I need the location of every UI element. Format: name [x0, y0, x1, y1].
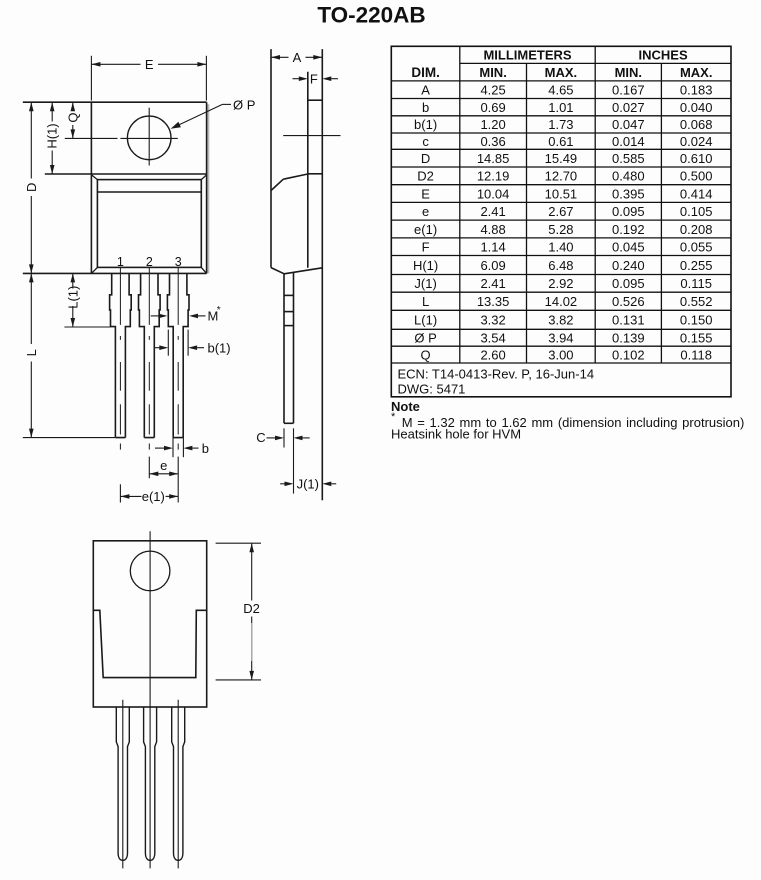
svg-text:14.85: 14.85: [477, 151, 510, 166]
svg-text:b(1): b(1): [208, 340, 231, 355]
front view tab top edge with D extension: [23, 101, 207, 103]
svg-text:D2: D2: [243, 601, 260, 616]
bottom view pin 1 outline: [116, 707, 129, 860]
svg-text:C: C: [256, 430, 265, 445]
svg-text:0.055: 0.055: [680, 240, 713, 255]
side view lead section tick 1: [284, 294, 294, 296]
mounting hole horizontal crosshair with Q extension: [65, 137, 118, 139]
svg-text:0.500: 0.500: [680, 169, 713, 184]
svg-text:2.41: 2.41: [480, 204, 505, 219]
svg-text:0.068: 0.068: [680, 117, 713, 132]
svg-text:*: *: [217, 305, 221, 316]
front view pin 2 lead outline: [139, 273, 161, 437]
front view body inner bevel rectangle: [97, 180, 201, 268]
front view pin 1 lead outline: [110, 273, 132, 437]
svg-text:0.047: 0.047: [612, 117, 645, 132]
pin 1 centerline: [119, 268, 121, 325]
svg-text:2: 2: [146, 255, 153, 269]
svg-text:c: c: [422, 134, 429, 149]
svg-text:3.32: 3.32: [480, 313, 505, 328]
svg-text:Heatsink hole for HVM: Heatsink hole for HVM: [391, 426, 521, 441]
svg-text:0.095: 0.095: [612, 204, 645, 219]
svg-text:2.67: 2.67: [548, 204, 573, 219]
side view body bottom slant: [284, 268, 322, 274]
dimension Q: [72, 102, 74, 110]
dimension E: [90, 56, 92, 101]
svg-text:INCHES: INCHES: [639, 47, 688, 62]
dimension L: [30, 273, 32, 344]
bottom view pin 3 outline: [172, 707, 185, 860]
svg-text:L(1): L(1): [65, 286, 80, 309]
bottom view pin 2 outline: [144, 707, 157, 860]
svg-text:15.49: 15.49: [545, 151, 578, 166]
svg-text:0.36: 0.36: [480, 134, 505, 149]
svg-text:0.395: 0.395: [612, 186, 645, 201]
front view tab right edge: [206, 102, 208, 273]
svg-text:TO-220AB: TO-220AB: [317, 3, 425, 28]
svg-text:3: 3: [175, 255, 182, 269]
front view body bottom edge with D and L extension: [23, 272, 207, 274]
svg-text:1.01: 1.01: [548, 100, 573, 115]
svg-text:1.20: 1.20: [480, 117, 505, 132]
svg-text:10.04: 10.04: [477, 186, 510, 201]
front view bevel chamfer top-right: [201, 175, 206, 180]
svg-text:0.414: 0.414: [680, 186, 713, 201]
svg-text:4.65: 4.65: [548, 83, 573, 98]
svg-text:0.150: 0.150: [680, 313, 713, 328]
dimension A: [271, 56, 289, 58]
pin 3 centerline: [177, 268, 179, 325]
svg-text:0.69: 0.69: [480, 100, 505, 115]
front view pin 3 lead outline: [167, 273, 189, 437]
side view tab top edge: [308, 99, 323, 101]
side view body top slant: [283, 174, 308, 179]
dimension e: [148, 457, 150, 479]
svg-text:Ø P: Ø P: [414, 331, 436, 346]
svg-text:D: D: [24, 183, 39, 192]
svg-text:0.480: 0.480: [612, 169, 645, 184]
svg-text:5.28: 5.28: [548, 222, 573, 237]
svg-text:0.024: 0.024: [680, 134, 713, 149]
svg-text:0.610: 0.610: [680, 151, 713, 166]
svg-text:0.526: 0.526: [612, 294, 645, 309]
dimension M*: [151, 315, 159, 317]
dimension e(1): [119, 484, 121, 502]
svg-text:e(1): e(1): [414, 222, 437, 237]
svg-text:0.155: 0.155: [680, 331, 713, 346]
side view left profile line: [270, 49, 272, 268]
svg-text:MILLIMETERS: MILLIMETERS: [483, 47, 571, 62]
svg-text:E: E: [421, 186, 430, 201]
svg-text:MAX.: MAX.: [545, 65, 578, 80]
svg-text:14.02: 14.02: [545, 294, 578, 309]
dimension b(1): [167, 330, 169, 356]
svg-text:MIN.: MIN.: [479, 65, 506, 80]
svg-text:DIM.: DIM.: [411, 65, 440, 80]
svg-text:H(1): H(1): [413, 258, 438, 273]
svg-text:ECN: T14-0413-Rev. P, 16-Jun-1: ECN: T14-0413-Rev. P, 16-Jun-14: [398, 366, 595, 381]
svg-text:1: 1: [117, 255, 124, 269]
svg-text:0.102: 0.102: [612, 347, 645, 362]
pin 2 centerline: [148, 268, 150, 325]
bottom view hole circle: [130, 551, 170, 591]
svg-text:12.19: 12.19: [477, 169, 510, 184]
svg-text:0.040: 0.040: [680, 100, 713, 115]
dimension H(1): [51, 102, 53, 121]
svg-text:2.41: 2.41: [480, 276, 505, 291]
svg-text:D: D: [421, 151, 430, 166]
dimension D2: [216, 542, 261, 544]
svg-text:12.70: 12.70: [545, 169, 578, 184]
side view back line: [321, 49, 323, 500]
svg-text:Ø P: Ø P: [233, 97, 255, 112]
svg-text:0.115: 0.115: [680, 276, 712, 291]
mounting hole vertical crosshair: [148, 108, 150, 166]
svg-text:6.48: 6.48: [548, 258, 573, 273]
front view bevel chamfer bottom-left: [91, 267, 97, 273]
front view body step line: [97, 191, 201, 193]
bottom view tab U-cut outline: [93, 610, 206, 677]
svg-text:Q: Q: [65, 112, 80, 122]
svg-text:e: e: [160, 458, 167, 473]
front view right edge shadow: [207, 104, 209, 273]
front view tab-body junction line with H(1) extension: [45, 173, 207, 175]
bottom view body outline: [93, 541, 206, 707]
svg-text:0.167: 0.167: [612, 83, 645, 98]
side view hole centerline: [283, 135, 340, 137]
side view lead section tick 3: [284, 325, 294, 327]
dimension F: [293, 78, 300, 80]
svg-text:Q: Q: [421, 347, 431, 362]
svg-text:3.82: 3.82: [548, 313, 573, 328]
front view bevel chamfer bottom-right: [201, 267, 206, 273]
svg-text:A: A: [421, 83, 430, 98]
svg-text:b(1): b(1): [414, 117, 437, 132]
svg-text:0.192: 0.192: [612, 222, 645, 237]
svg-text:F: F: [422, 240, 430, 255]
svg-text:0.027: 0.027: [612, 100, 645, 115]
svg-text:E: E: [145, 57, 154, 72]
svg-text:Note: Note: [391, 399, 420, 414]
svg-text:0.585: 0.585: [612, 151, 645, 166]
svg-text:F: F: [310, 71, 318, 86]
bottom view vertical centerline: [149, 531, 151, 868]
svg-text:0.208: 0.208: [680, 222, 713, 237]
svg-text:0.095: 0.095: [612, 276, 645, 291]
svg-text:0.105: 0.105: [680, 204, 713, 219]
svg-text:A: A: [293, 50, 302, 65]
svg-text:1.40: 1.40: [548, 240, 573, 255]
svg-text:MIN.: MIN.: [615, 65, 642, 80]
svg-text:J(1): J(1): [297, 476, 319, 491]
svg-text:L: L: [24, 349, 39, 356]
dimension b: [172, 438, 174, 458]
svg-text:1.14: 1.14: [480, 240, 505, 255]
svg-text:*: *: [391, 411, 396, 423]
svg-text:L: L: [422, 294, 429, 309]
svg-text:b: b: [422, 100, 429, 115]
svg-text:0.131: 0.131: [612, 313, 645, 328]
front view tab left edge: [90, 102, 92, 273]
svg-text:0.118: 0.118: [680, 347, 712, 362]
dimension J(1): [280, 483, 284, 485]
svg-text:MAX.: MAX.: [680, 65, 713, 80]
svg-text:2.92: 2.92: [548, 276, 573, 291]
side view lead section tick 2: [284, 311, 294, 313]
svg-text:0.552: 0.552: [680, 294, 713, 309]
svg-text:4.88: 4.88: [480, 222, 505, 237]
front view bevel chamfer top-left: [91, 175, 97, 180]
table grid: [391, 46, 731, 397]
svg-text:0.014: 0.014: [612, 134, 645, 149]
side view body top edge: [308, 173, 323, 175]
svg-text:13.35: 13.35: [477, 294, 510, 309]
dimension L(1): [72, 273, 74, 288]
svg-text:0.139: 0.139: [612, 331, 645, 346]
svg-text:2.60: 2.60: [480, 347, 505, 362]
svg-text:e: e: [422, 204, 429, 219]
svg-text:e(1): e(1): [142, 489, 165, 504]
svg-text:0.61: 0.61: [548, 134, 573, 149]
bottom view pin 1 centerline: [122, 700, 124, 869]
svg-text:3.54: 3.54: [480, 331, 505, 346]
svg-text:DWG: 5471: DWG: 5471: [398, 382, 466, 397]
side view body bottom chamfer: [271, 268, 284, 274]
svg-text:0.045: 0.045: [612, 240, 645, 255]
side view tab front line: [307, 72, 309, 268]
svg-text:H(1): H(1): [45, 123, 60, 148]
svg-text:3.94: 3.94: [548, 331, 573, 346]
svg-text:0.240: 0.240: [612, 258, 645, 273]
side view lead outline: [283, 274, 285, 424]
svg-text:0.183: 0.183: [680, 83, 713, 98]
svg-text:0.255: 0.255: [680, 258, 713, 273]
svg-text:D2: D2: [417, 169, 434, 184]
svg-text:J(1): J(1): [414, 276, 436, 291]
mounting hole circle: [127, 116, 171, 160]
svg-text:1.73: 1.73: [548, 117, 573, 132]
side view body top chamfer: [271, 179, 283, 190]
svg-text:3.00: 3.00: [548, 347, 573, 362]
svg-text:4.25: 4.25: [480, 83, 505, 98]
dimension C: [283, 428, 285, 447]
svg-text:b: b: [202, 441, 209, 456]
dimension D: [30, 102, 32, 178]
svg-text:6.09: 6.09: [480, 258, 505, 273]
svg-text:10.51: 10.51: [545, 186, 578, 201]
bottom view pin 3 centerline: [177, 700, 179, 869]
svg-text:L(1): L(1): [414, 313, 437, 328]
